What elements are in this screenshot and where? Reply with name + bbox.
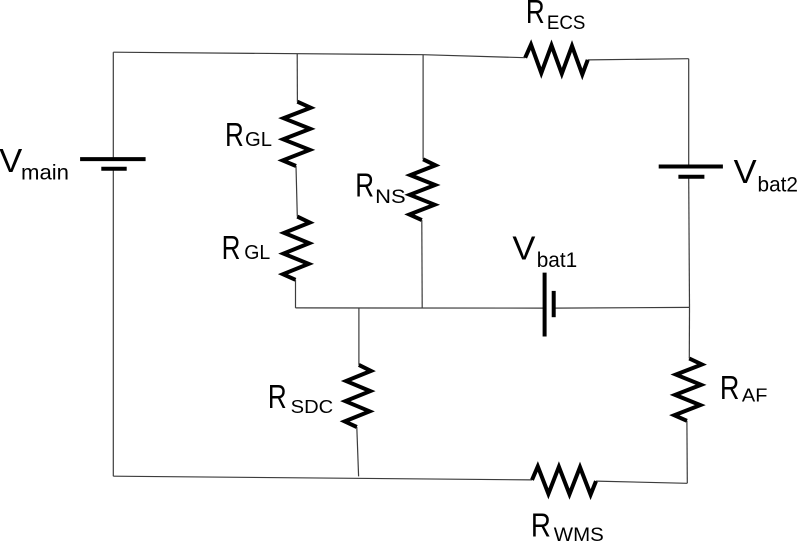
wire left vertical V_main top lead xyxy=(112,52,114,159)
svg-text:WMS: WMS xyxy=(554,525,604,542)
wire top bus from top-left corner to R_ECS xyxy=(113,52,525,58)
label R_AF xyxy=(720,369,768,406)
wire right vertical V_bat2 top lead xyxy=(688,59,690,167)
wire R_GL2 bottom lead xyxy=(295,280,297,308)
wire right vertical V_bat2 bottom lead to middle bus node xyxy=(688,177,691,308)
label R_GL2 xyxy=(222,229,271,266)
label V_main xyxy=(0,142,69,185)
svg-text:SDC: SDC xyxy=(291,396,334,417)
svg-text:R: R xyxy=(222,229,241,266)
svg-text:ECS: ECS xyxy=(547,12,586,34)
wire R_GL1 top lead from top bus xyxy=(296,54,298,102)
svg-text:GL: GL xyxy=(245,129,272,151)
svg-text:R: R xyxy=(526,0,545,30)
svg-text:AF: AF xyxy=(742,386,768,406)
battery V_main xyxy=(80,159,146,169)
label V_bat2 xyxy=(734,153,798,196)
wire middle bus V_bat1 to right vertical xyxy=(554,306,690,309)
svg-text:NS: NS xyxy=(375,186,406,208)
wire middle bus left to V_bat1 xyxy=(296,307,545,309)
resistor R_WMS xyxy=(532,466,596,494)
svg-text:bat2: bat2 xyxy=(758,172,799,196)
svg-text:R: R xyxy=(355,167,374,204)
resistor R_GL2 xyxy=(283,217,310,280)
wire R_AF bottom lead xyxy=(686,421,688,484)
svg-text:R: R xyxy=(720,369,740,406)
wire R_ECS right lead to top-right corner xyxy=(588,59,689,60)
svg-text:V: V xyxy=(512,229,535,266)
wire R_NS top lead from top bus xyxy=(422,55,424,160)
svg-text:bat1: bat1 xyxy=(537,248,578,272)
wire R_SDC bottom lead to bottom bus xyxy=(357,427,359,476)
resistor R_GL1 xyxy=(283,102,311,166)
wire between R_GL1 and R_GL2 xyxy=(296,166,297,217)
resistor R_AF xyxy=(674,359,702,421)
svg-text:R: R xyxy=(225,116,244,153)
resistor R_ECS xyxy=(525,45,588,75)
wire R_NS bottom lead to middle bus xyxy=(421,220,423,308)
wire left vertical V_main bottom lead xyxy=(112,169,114,476)
svg-text:R: R xyxy=(531,507,551,542)
wire bottom bus left to R_WMS xyxy=(113,476,532,480)
battery V_bat1 xyxy=(545,273,554,337)
label R_ECS xyxy=(526,0,586,34)
svg-text:V: V xyxy=(734,153,757,190)
svg-text:V: V xyxy=(0,142,22,179)
label R_NS xyxy=(355,167,406,208)
wire R_WMS right lead to bottom-right corner xyxy=(596,481,687,483)
label R_WMS xyxy=(531,507,604,542)
label R_GL1 xyxy=(225,116,272,153)
svg-text:R: R xyxy=(268,378,287,415)
svg-text:GL: GL xyxy=(244,242,270,264)
resistor R_SDC xyxy=(345,365,371,427)
svg-text:main: main xyxy=(21,160,69,184)
wire R_SDC top lead from middle bus xyxy=(358,308,360,365)
resistor R_NS xyxy=(409,159,435,220)
label R_SDC xyxy=(268,378,333,417)
label V_bat1 xyxy=(512,229,577,272)
wire R_AF top lead xyxy=(688,307,690,358)
battery V_bat2 xyxy=(659,167,723,177)
